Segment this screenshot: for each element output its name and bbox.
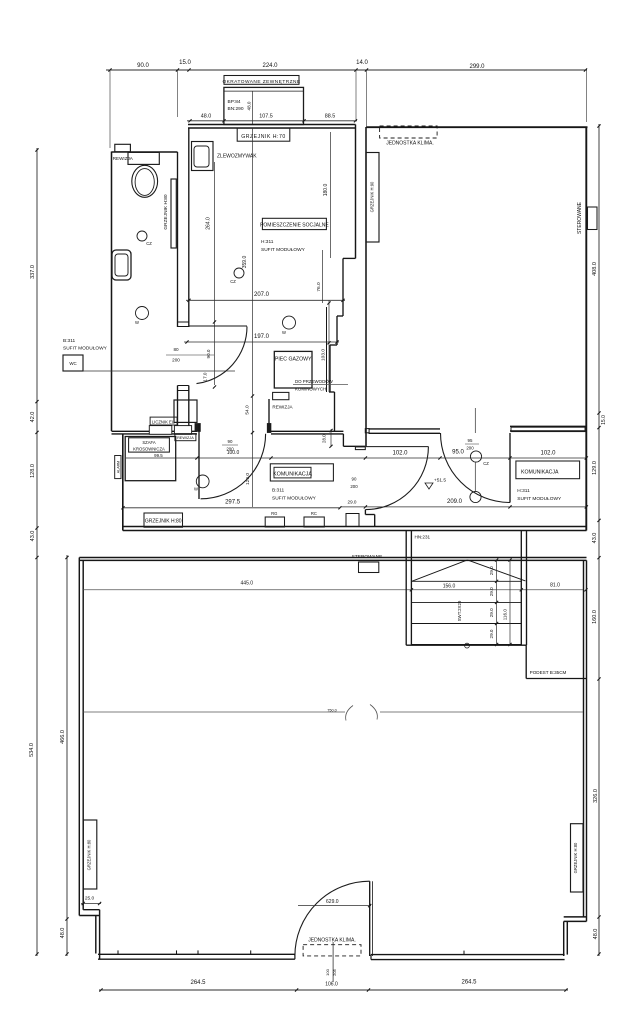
svg-text:156.0: 156.0 — [443, 584, 456, 590]
svg-text:359.0: 359.0 — [242, 256, 248, 269]
svg-text:107.5: 107.5 — [259, 114, 273, 120]
svg-text:POMIESZCZENIE SOCJALNE: POMIESZCZENIE SOCJALNE — [260, 223, 329, 229]
svg-text:17.0: 17.0 — [203, 372, 208, 381]
svg-text:29.0: 29.0 — [489, 587, 494, 596]
svg-text:88.5: 88.5 — [325, 113, 336, 119]
svg-text:90.0: 90.0 — [137, 63, 149, 69]
svg-text:116.0: 116.0 — [503, 609, 508, 621]
svg-text:207.0: 207.0 — [254, 292, 270, 298]
svg-text:REWIZJA: REWIZJA — [113, 156, 134, 161]
svg-text:100: 100 — [325, 968, 330, 975]
svg-text:128.0: 128.0 — [30, 464, 36, 478]
svg-text:54.0: 54.0 — [245, 405, 251, 415]
svg-text:HN:231: HN:231 — [415, 535, 431, 540]
svg-text:GRZEJNIK H:80: GRZEJNIK H:80 — [163, 194, 169, 230]
svg-text:14.0: 14.0 — [356, 60, 368, 66]
svg-text:H:311: H:311 — [517, 488, 530, 494]
svg-text:REWIZJA: REWIZJA — [272, 404, 293, 409]
svg-text:99.5: 99.5 — [154, 453, 163, 458]
svg-text:106.0: 106.0 — [325, 982, 338, 988]
svg-text:102.0: 102.0 — [392, 451, 408, 457]
svg-text:103.0: 103.0 — [321, 349, 327, 361]
svg-text:29.0: 29.0 — [348, 500, 357, 505]
svg-text:KOMUNIKACJA: KOMUNIKACJA — [521, 469, 559, 475]
svg-text:ALARM: ALARM — [116, 461, 120, 473]
svg-text:81.0: 81.0 — [550, 583, 560, 589]
svg-text:200: 200 — [226, 447, 234, 452]
svg-text:42.0: 42.0 — [30, 412, 36, 423]
svg-text:CZ: CZ — [146, 241, 152, 246]
svg-text:KOMUNIKACJA: KOMUNIKACJA — [273, 472, 312, 478]
svg-text:48.0: 48.0 — [247, 101, 252, 110]
svg-text:PODEST B:35CM: PODEST B:35CM — [530, 670, 567, 675]
svg-text:28.0: 28.0 — [321, 434, 326, 443]
svg-text:264.5: 264.5 — [461, 980, 477, 986]
svg-text:43.0: 43.0 — [30, 531, 36, 542]
svg-text:GRZEJNIK H:80: GRZEJNIK H:80 — [145, 518, 182, 524]
svg-text:W: W — [282, 330, 286, 335]
svg-text:CZ: CZ — [230, 279, 236, 284]
svg-text:534.0: 534.0 — [29, 743, 35, 757]
svg-text:102.0: 102.0 — [540, 451, 556, 457]
svg-text:WC: WC — [69, 361, 76, 366]
svg-text:197.0: 197.0 — [254, 334, 270, 340]
svg-text:209.0: 209.0 — [447, 499, 463, 505]
svg-text:ZLEWOZMYWAK: ZLEWOZMYWAK — [217, 154, 257, 160]
svg-text:445.0: 445.0 — [241, 581, 254, 587]
svg-text:29.0: 29.0 — [489, 608, 494, 617]
svg-text:629.0: 629.0 — [326, 899, 339, 905]
svg-text:29.0: 29.0 — [489, 629, 494, 638]
svg-text:129.0: 129.0 — [245, 473, 251, 485]
svg-text:76.0: 76.0 — [316, 282, 322, 292]
svg-text:160.0: 160.0 — [592, 610, 598, 624]
svg-text:180.0: 180.0 — [323, 184, 329, 197]
svg-text:SUFIT MODUŁOWY: SUFIT MODUŁOWY — [272, 496, 317, 502]
svg-text:CZ: CZ — [483, 461, 489, 466]
svg-text:48.0: 48.0 — [60, 928, 66, 939]
svg-text:RC: RC — [311, 511, 317, 516]
svg-text:GRZEJNIK H:80: GRZEJNIK H:80 — [87, 839, 92, 870]
svg-text:48.0: 48.0 — [593, 929, 599, 940]
svg-text:+51.5: +51.5 — [434, 478, 446, 484]
svg-text:264.5: 264.5 — [190, 980, 206, 986]
svg-text:15.0: 15.0 — [601, 415, 607, 425]
svg-text:H:311: H:311 — [261, 239, 274, 245]
svg-text:SUFIT MODUŁOWY: SUFIT MODUŁOWY — [517, 496, 562, 502]
svg-text:BP:84: BP:84 — [228, 99, 241, 105]
svg-text:KROSOWNICZA: KROSOWNICZA — [133, 447, 165, 452]
svg-text:29.0: 29.0 — [489, 566, 494, 575]
svg-text:B:311: B:311 — [63, 338, 76, 344]
svg-text:OKRATOWANE ZEWNĘTRZNE: OKRATOWANE ZEWNĘTRZNE — [222, 79, 300, 85]
svg-text:B:311: B:311 — [272, 488, 285, 494]
svg-text:205: 205 — [332, 968, 337, 975]
svg-text:W: W — [135, 320, 139, 325]
svg-text:297.5: 297.5 — [225, 500, 241, 506]
svg-text:SUFIT MODUŁOWY: SUFIT MODUŁOWY — [261, 247, 306, 253]
svg-text:SWT.2X29: SWT.2X29 — [457, 600, 462, 621]
svg-text:408.0: 408.0 — [592, 262, 598, 276]
svg-text:90: 90 — [228, 439, 233, 444]
svg-text:337.0: 337.0 — [30, 265, 36, 279]
svg-text:224.0: 224.0 — [262, 63, 278, 69]
svg-text:PIEC GAZOWY: PIEC GAZOWY — [275, 357, 312, 363]
svg-text:KOMINOWYCH: KOMINOWYCH — [295, 387, 326, 392]
svg-text:80: 80 — [173, 347, 179, 352]
svg-text:STEROWANE: STEROWANE — [577, 201, 583, 234]
svg-text:264.0: 264.0 — [206, 217, 212, 230]
svg-text:95.0: 95.0 — [452, 450, 464, 456]
svg-text:90: 90 — [352, 477, 357, 482]
svg-text:GRZEJNIK H:70: GRZEJNIK H:70 — [241, 134, 286, 140]
svg-text:200: 200 — [350, 484, 358, 489]
svg-text:DO PRZEWODÓW: DO PRZEWODÓW — [295, 379, 334, 384]
svg-text:REWIZJA: REWIZJA — [177, 436, 194, 440]
svg-text:JEDNOSTKA KLIMA.: JEDNOSTKA KLIMA. — [386, 141, 434, 147]
svg-text:466.0: 466.0 — [60, 730, 66, 744]
svg-text:750.0: 750.0 — [327, 709, 337, 713]
svg-text:200: 200 — [466, 446, 474, 451]
svg-text:SUFIT MODUŁOWY: SUFIT MODUŁOWY — [63, 346, 108, 352]
svg-text:129.0: 129.0 — [592, 461, 598, 475]
svg-text:15.0: 15.0 — [179, 60, 191, 66]
svg-text:GRZEJNIK H:90: GRZEJNIK H:90 — [370, 181, 375, 212]
svg-text:200: 200 — [172, 358, 180, 363]
svg-text:43.0: 43.0 — [592, 533, 598, 544]
svg-text:RG: RG — [271, 511, 277, 516]
svg-text:25.0: 25.0 — [85, 896, 95, 902]
svg-text:95: 95 — [468, 438, 473, 443]
svg-text:299.0: 299.0 — [469, 64, 485, 70]
svg-text:90.0: 90.0 — [206, 349, 211, 358]
svg-text:GRZEJNIK H:80: GRZEJNIK H:80 — [573, 842, 578, 873]
svg-text:SZAFA: SZAFA — [142, 440, 155, 445]
svg-text:LICZNIK EL.: LICZNIK EL. — [152, 420, 176, 425]
svg-text:48.0: 48.0 — [201, 113, 212, 119]
svg-text:326.0: 326.0 — [593, 789, 599, 803]
svg-text:BN:290: BN:290 — [228, 106, 244, 112]
svg-text:JEDNOSTKA KLIMA.: JEDNOSTKA KLIMA. — [308, 938, 356, 944]
svg-text:W: W — [194, 487, 198, 492]
